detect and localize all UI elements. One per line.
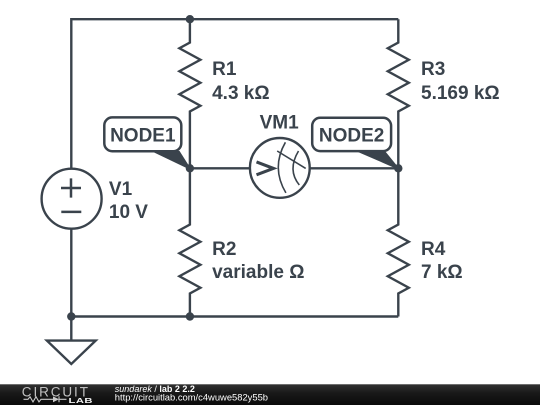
voltmeter VM1 — [250, 138, 310, 198]
svg-text:V1: V1 — [109, 179, 133, 200]
svg-text:variable Ω: variable Ω — [212, 262, 304, 283]
junction dot: NODE2 — [394, 164, 402, 172]
wire: node row right (VM1 to NODE2) — [309, 167, 398, 169]
node flag NODE1 — [104, 117, 181, 151]
resistor R3 — [388, 19, 409, 168]
ground — [47, 317, 96, 365]
svg-text:7 kΩ: 7 kΩ — [421, 262, 463, 283]
node flag NODE1 tail — [150, 151, 190, 170]
svg-text:R3: R3 — [421, 59, 445, 80]
resistor R1 — [179, 19, 200, 168]
footer title text — [115, 384, 268, 402]
svg-text:NODE2: NODE2 — [319, 126, 384, 147]
svg-text:4.3 kΩ: 4.3 kΩ — [212, 83, 270, 104]
junction dot: top rail / R1 — [186, 15, 194, 23]
voltage source V1 — [42, 169, 102, 229]
svg-text:VM1: VM1 — [260, 113, 300, 134]
V1 minus sign — [61, 211, 81, 214]
svg-text:R2: R2 — [212, 239, 236, 260]
V1 plus sign — [61, 178, 81, 197]
junction dot: NODE1 — [186, 164, 194, 172]
wire: top rail with left corner — [71, 19, 398, 169]
svg-text:10 V: 10 V — [109, 202, 148, 223]
resistor R4 — [388, 168, 409, 316]
svg-text:http://circuitlab.com/c4wuwe58: http://circuitlab.com/c4wuwe582y55b — [115, 391, 268, 402]
wire: bottom rail — [71, 315, 398, 317]
node flag NODE2 tail — [355, 151, 399, 170]
svg-text:R4: R4 — [421, 239, 446, 260]
resistor R2 — [179, 168, 200, 316]
svg-text:5.169 kΩ: 5.169 kΩ — [421, 83, 500, 104]
junction dot: bottom rail / R2 — [186, 312, 194, 320]
node flag NODE2 — [312, 118, 391, 151]
svg-text:R1: R1 — [212, 59, 237, 80]
svg-text:NODE1: NODE1 — [110, 126, 176, 147]
wire: node row left (NODE1 to VM1) — [190, 167, 251, 169]
CircuitLab logo resistor-diode glyph — [24, 396, 67, 402]
footer bar — [0, 384, 540, 405]
CircuitLab logo wordmark — [22, 385, 93, 405]
wire: left rail lower (V1 to bottom rail) — [70, 229, 72, 317]
junction dot: bottom rail / V1 — [67, 312, 75, 320]
svg-text:LAB: LAB — [68, 396, 93, 404]
